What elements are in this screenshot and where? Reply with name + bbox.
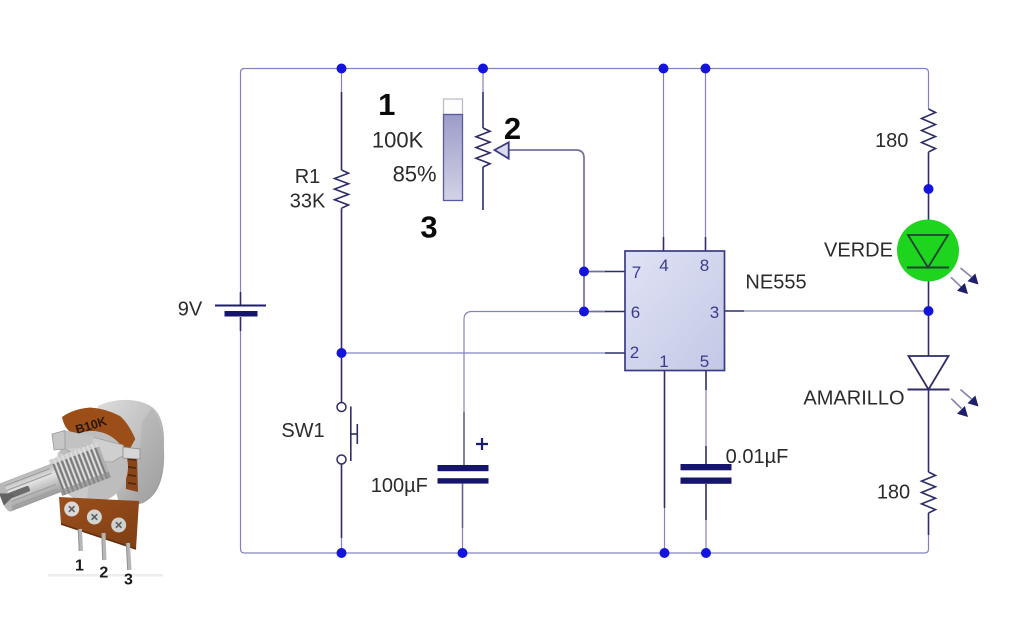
svg-text:NE555: NE555 — [745, 272, 806, 294]
svg-text:1: 1 — [659, 352, 668, 371]
svg-text:2: 2 — [504, 111, 521, 146]
svg-text:8: 8 — [700, 256, 709, 275]
svg-text:3: 3 — [710, 303, 719, 322]
svg-text:2: 2 — [99, 565, 108, 582]
svg-text:100K: 100K — [372, 128, 424, 153]
svg-text:100µF: 100µF — [371, 475, 428, 497]
svg-text:AMARILLO: AMARILLO — [803, 388, 904, 410]
svg-text:85%: 85% — [393, 162, 437, 187]
svg-text:6: 6 — [631, 303, 640, 322]
svg-text:R1: R1 — [295, 166, 321, 188]
svg-text:SW1: SW1 — [281, 420, 324, 442]
svg-text:180: 180 — [875, 130, 908, 152]
svg-text:1: 1 — [378, 87, 395, 122]
svg-text:33K: 33K — [290, 191, 326, 213]
svg-text:3: 3 — [124, 572, 133, 589]
svg-text:2: 2 — [630, 343, 639, 362]
svg-text:180: 180 — [877, 482, 910, 504]
svg-text:9V: 9V — [178, 299, 203, 321]
svg-text:VERDE: VERDE — [824, 240, 893, 262]
svg-text:5: 5 — [700, 352, 709, 371]
svg-text:3: 3 — [420, 210, 437, 245]
svg-text:0.01µF: 0.01µF — [726, 446, 789, 468]
svg-text:4: 4 — [659, 256, 668, 275]
svg-text:1: 1 — [75, 558, 84, 575]
svg-text:7: 7 — [632, 263, 641, 282]
